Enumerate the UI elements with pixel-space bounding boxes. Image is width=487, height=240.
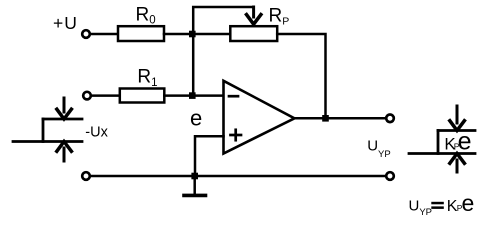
node junction R1 / feedback column <box>189 92 196 99</box>
op-amp U1 <box>224 81 295 154</box>
input step waveform step edge <box>42 119 45 142</box>
terminal bottom left <box>82 172 90 180</box>
resistor R0 <box>118 26 164 41</box>
input step waveform low line <box>13 140 82 143</box>
svg-text:UYP: UYP <box>409 198 433 219</box>
wire non-inverting input down to bottom rail <box>195 136 224 176</box>
input step down arrow <box>63 98 66 112</box>
svg-text:e: e <box>190 105 202 130</box>
node junction feedback column / R0 wire <box>189 31 196 38</box>
terminal bottom right <box>386 172 394 180</box>
terminal +U <box>82 30 90 38</box>
svg-text:e: e <box>458 128 472 156</box>
wire +U terminal to R0 <box>90 33 118 36</box>
wire op-amp output <box>295 117 387 120</box>
wire R1 terminal to R1 <box>91 94 120 97</box>
svg-text:-Ux: -Ux <box>85 124 108 140</box>
output step waveform high line <box>438 129 475 132</box>
wire feedback riser and top rail <box>193 7 253 96</box>
wire RP to output node <box>277 34 325 118</box>
output step up arrow <box>456 160 459 172</box>
wire R1 to inverting input <box>164 94 223 97</box>
svg-text:+U: +U <box>53 13 78 33</box>
node junction ground <box>191 173 198 180</box>
terminal output <box>386 115 394 123</box>
svg-text:R0: R0 <box>136 4 156 26</box>
terminal input R1 <box>83 92 91 100</box>
resistor R1 <box>120 89 165 103</box>
output step down arrow <box>456 106 459 123</box>
op-amp minus sign <box>229 95 238 98</box>
svg-text:RP: RP <box>269 5 290 27</box>
output step waveform low line <box>409 152 475 155</box>
svg-text:e: e <box>462 190 475 216</box>
svg-text:UYP: UYP <box>367 138 391 160</box>
ground <box>193 176 196 194</box>
svg-text:R1: R1 <box>137 67 157 89</box>
wire R0 to RP <box>164 33 230 36</box>
input step waveform high line <box>43 118 82 121</box>
output step waveform step edge <box>437 131 440 154</box>
potentiometer RP <box>230 26 277 41</box>
node junction output/feedback <box>322 115 329 122</box>
input step up arrow <box>63 148 66 161</box>
wiper arrow into RP <box>252 7 255 17</box>
op-amp plus sign <box>231 134 242 137</box>
bottom rail wire <box>90 175 386 178</box>
